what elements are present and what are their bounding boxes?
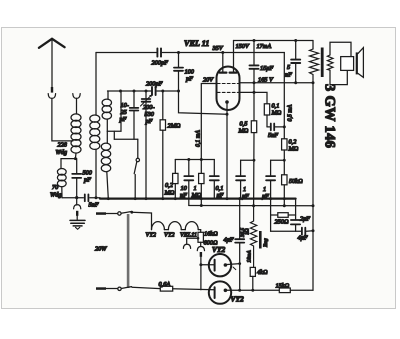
node 15uF screen	[253, 81, 256, 84]
rail 150V	[234, 40, 314, 42]
capacitor 200pF antenna coupling	[157, 48, 161, 56]
capacitor 500pF	[72, 159, 81, 198]
capacitor 1uF b	[266, 160, 275, 231]
svg-text:35V: 35V	[212, 45, 224, 52]
svg-text:0,5 mA: 0,5 mA	[288, 104, 294, 121]
wire to ground	[76, 216, 78, 220]
pin	[200, 252, 202, 257]
svg-text:50kΩ: 50kΩ	[289, 178, 303, 185]
node 4k anode	[251, 289, 254, 292]
svg-text:nF: nF	[285, 72, 292, 79]
svg-text:MΩ: MΩ	[164, 190, 175, 197]
output transformer primary	[310, 41, 319, 83]
wire mains to fuse	[132, 287, 160, 288]
capacitor 5nF series	[85, 194, 89, 201]
tap wire	[187, 238, 198, 243]
resistor 0,2 MOhm right	[282, 139, 287, 150]
wire heater line	[132, 212, 152, 229]
wire to switch2	[106, 288, 118, 290]
grid 2 dashes	[217, 91, 238, 93]
svg-text:20W: 20W	[95, 246, 107, 253]
capacitor trimmer 10-25pF	[130, 91, 139, 139]
speaker wiring loop	[330, 42, 351, 56]
node bus dots	[95, 196, 98, 199]
capacitor 15uF	[250, 41, 259, 93]
node T 160	[283, 159, 286, 162]
speaker bar	[356, 52, 358, 74]
svg-text:250Ω: 250Ω	[275, 219, 289, 226]
node feed 4uF	[312, 229, 315, 232]
svg-text:4μF: 4μF	[298, 235, 308, 242]
wire 0,5M down	[253, 133, 255, 206]
svg-text:200pF: 200pF	[152, 60, 169, 67]
svg-text:150V: 150V	[236, 43, 250, 50]
wire 70Wdg bottom to bus	[61, 187, 63, 198]
antenna	[39, 39, 65, 87]
capacitor 4uF reservoir	[235, 199, 244, 291]
wire coil2 bottom	[95, 149, 97, 198]
wire y231	[271, 230, 301, 232]
node lower 50k	[283, 204, 286, 207]
resistor 50kOhm	[282, 175, 287, 185]
anode bar left	[220, 71, 227, 73]
node triode anode	[221, 51, 224, 54]
svg-text:VY2: VY2	[164, 232, 175, 239]
capacitor 0,1uF	[210, 160, 219, 199]
svg-text:10-: 10-	[121, 102, 129, 109]
svg-text:70: 70	[52, 184, 59, 191]
node cathode junction	[226, 113, 229, 116]
wire bus left end with 5nF	[62, 197, 83, 199]
svg-text:0,1 mA: 0,1 mA	[196, 130, 202, 147]
switch2	[118, 287, 121, 290]
wire screen 165V	[240, 82, 296, 84]
node primary bottom	[312, 81, 315, 84]
coil L3 upper	[102, 91, 111, 131]
wire grid3	[240, 92, 268, 103]
node tap	[197, 237, 200, 240]
slider bar Reg	[259, 231, 262, 249]
svg-text:kΩ: kΩ	[245, 228, 251, 234]
svg-text:VY2: VY2	[231, 295, 244, 304]
wire tank right	[157, 90, 179, 92]
svg-text:0,5: 0,5	[240, 121, 248, 128]
empty socket cup	[183, 244, 190, 248]
svg-text:MΩ: MΩ	[271, 110, 282, 117]
grid 1 dashes	[217, 83, 238, 85]
mains terminal 2	[96, 287, 106, 290]
svg-text:1: 1	[194, 185, 197, 192]
anode bar right	[230, 71, 237, 73]
svg-text:17mA: 17mA	[257, 43, 272, 50]
ground	[70, 220, 85, 229]
antenna socket cup	[48, 94, 55, 99]
svg-text:16kΩ: 16kΩ	[204, 231, 218, 238]
resistor 1 MOhm	[199, 160, 204, 206]
wire 35V line down	[283, 53, 285, 139]
node bus switch	[134, 197, 137, 200]
wire osc tank y91	[108, 90, 151, 92]
transformer core	[321, 48, 324, 78]
svg-text:165 V: 165 V	[258, 77, 274, 84]
switch osc	[134, 139, 139, 198]
svg-text:25: 25	[121, 109, 127, 116]
wire U under coil	[107, 91, 121, 131]
fuse 0,6A	[160, 286, 214, 291]
coil L1 socket cup	[73, 94, 80, 99]
svg-text:200-: 200-	[143, 104, 155, 111]
svg-text:10: 10	[181, 185, 188, 192]
svg-text:1: 1	[263, 186, 266, 193]
capacitor 200pF osc	[152, 87, 156, 95]
wire branch to 1uF a	[241, 159, 254, 161]
wire lower line	[189, 205, 313, 207]
node 4uF anode1	[238, 262, 241, 265]
resistor 0,5 MOhm	[251, 121, 256, 133]
capacitor 4uF series	[302, 228, 313, 235]
svg-text:0,1: 0,1	[272, 103, 280, 110]
wire pentode anode to rail	[233, 41, 235, 72]
wire g3 resistor chain 0,5M	[253, 92, 255, 120]
resistor 2MOhm	[160, 91, 165, 199]
svg-text:4kΩ: 4kΩ	[257, 269, 268, 276]
wire 165V to primary bottom	[296, 82, 313, 84]
wire antenna down to coil tap	[52, 98, 73, 140]
svg-text:MΩ: MΩ	[288, 146, 299, 153]
svg-text:228: 228	[58, 142, 68, 149]
bus to 250 area: bus end corner	[295, 199, 297, 220]
heater bumps VY2 VY2 VEL11	[152, 222, 201, 233]
node lower dots	[200, 204, 203, 207]
node 4uF anode2	[238, 289, 241, 292]
capacitor 10nF	[184, 160, 193, 206]
svg-text:5nF: 5nF	[268, 132, 278, 139]
node tube1 feed	[199, 263, 202, 266]
tube VY2 no1	[209, 254, 240, 276]
wire y139	[114, 138, 138, 140]
wire branch to 1uF b	[271, 159, 285, 161]
wire to tube1	[201, 264, 215, 266]
node y91 dots	[119, 90, 122, 93]
svg-text:Reg: Reg	[263, 238, 269, 248]
wire 4k to anode wire	[252, 276, 254, 290]
svg-text:Wdg: Wdg	[50, 192, 62, 199]
resistor 15kOhm	[279, 288, 313, 293]
svg-text:18mA: 18mA	[247, 250, 253, 263]
wire after 200pF	[162, 52, 284, 54]
svg-text:VEL11: VEL11	[180, 232, 197, 239]
transformer secondary	[327, 55, 333, 70]
svg-text:15kΩ: 15kΩ	[276, 283, 290, 290]
capacitor 100pF	[174, 53, 183, 92]
wire coil2 top	[95, 53, 97, 116]
wire to 70Wdg coil	[61, 159, 75, 169]
svg-text:0,6A: 0,6A	[159, 281, 171, 288]
wire detector y159.5	[175, 159, 214, 161]
ballast 20W	[127, 214, 130, 288]
svg-text:15μF: 15μF	[260, 65, 273, 72]
node 165V right	[294, 81, 297, 84]
svg-text:Wdg: Wdg	[56, 149, 68, 156]
wire to switch1	[106, 213, 118, 215]
switch1	[118, 212, 121, 215]
svg-text:2μF: 2μF	[300, 216, 310, 223]
capacitor 1uF a	[236, 160, 245, 198]
tube VY2 no2	[209, 281, 279, 303]
svg-text:0,2: 0,2	[165, 182, 174, 189]
wire grid top line y52.5	[96, 52, 156, 54]
coil L3 lower	[101, 131, 110, 198]
svg-text:pF: pF	[83, 177, 91, 184]
capacitor variable 200-530pF	[141, 91, 152, 199]
node bus 50k	[283, 197, 286, 200]
svg-text:1: 1	[243, 186, 246, 193]
capacitor 2uF	[291, 220, 300, 231]
svg-text:pF: pF	[119, 116, 127, 123]
node det dots	[187, 158, 190, 161]
svg-text:0,1: 0,1	[216, 185, 224, 192]
cathode dot	[225, 100, 229, 104]
svg-text:100: 100	[185, 69, 195, 76]
node T 240	[253, 159, 256, 162]
node bus 2M	[161, 197, 164, 200]
wire U drop	[113, 131, 115, 139]
wire cathode down	[226, 103, 228, 199]
svg-text:VY2: VY2	[212, 245, 225, 254]
wire pin down	[200, 257, 202, 290]
voice coil box	[341, 57, 354, 71]
wire below 0,2M	[283, 150, 285, 206]
svg-text:VY2: VY2	[146, 232, 157, 239]
speaker cone	[358, 48, 364, 78]
wire B+ feed vertical	[312, 83, 314, 290]
node coil bottom	[74, 157, 77, 160]
coil L2 70 Wdg	[57, 169, 66, 187]
svg-text:VEL 11: VEL 11	[184, 39, 209, 48]
wire socket to coil L1	[76, 98, 78, 114]
svg-text:20V: 20V	[203, 77, 214, 84]
capacitor 5nF anode	[291, 41, 300, 83]
coil L1 228 Wdg	[71, 114, 81, 153]
node ground junction	[75, 196, 78, 199]
node 5nF to line	[283, 125, 286, 128]
svg-text:2MΩ: 2MΩ	[168, 123, 181, 130]
bus main	[100, 198, 296, 200]
ground plug cup	[74, 198, 81, 209]
svg-text:pF: pF	[185, 76, 193, 83]
resistor 4kOhm	[250, 267, 255, 276]
svg-text:200pF: 200pF	[146, 81, 163, 88]
wire 100pF to cathode	[179, 91, 228, 114]
node switch1	[130, 211, 133, 214]
svg-text:MΩ: MΩ	[238, 128, 249, 135]
node bus varcap	[145, 197, 148, 200]
wire 5nF to bus	[90, 197, 100, 199]
resistor 0,2 MOhm grid leak	[173, 160, 178, 199]
node 100pF tap	[177, 51, 180, 54]
coil L4 secondary	[90, 115, 100, 149]
wire triode anode up	[222, 53, 224, 72]
svg-text:0,2: 0,2	[289, 139, 298, 146]
svg-text:5: 5	[287, 64, 290, 71]
node rail 15uF	[253, 39, 256, 42]
resistor 16k/600	[198, 232, 203, 242]
resistor 250 Ohm	[271, 213, 296, 218]
tube VEL11 envelope	[217, 67, 240, 111]
ground plug pin	[76, 211, 78, 216]
svg-text:3 GW 146: 3 GW 146	[322, 84, 338, 148]
heater chain: mains terminal 1	[96, 212, 106, 215]
node g3 junction	[253, 91, 256, 94]
svg-text:4μF: 4μF	[224, 237, 234, 244]
svg-text:500: 500	[83, 170, 93, 177]
resistor 0,1 MOhm	[264, 104, 269, 127]
potentiometer 36,5kOhm	[250, 206, 256, 268]
wire grid1 left	[201, 84, 216, 160]
plug pin chain: resistor bottom	[200, 242, 202, 246]
svg-text:5nF: 5nF	[89, 202, 99, 209]
socket cup with pin	[197, 247, 204, 251]
wire coil L1 bottom	[74, 153, 77, 159]
node rail 5nF	[294, 39, 297, 42]
antenna plug pin	[51, 87, 53, 93]
capacitor 5nF coupling	[267, 124, 284, 131]
